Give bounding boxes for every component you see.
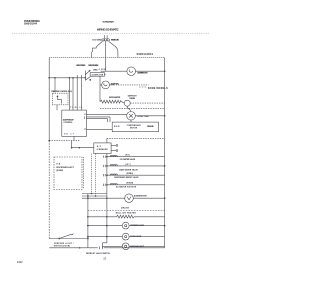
svg-text:115V 60HZ: 115V 60HZ xyxy=(92,39,102,41)
svg-text:DAMPER MOTOR: DAMPER MOTOR xyxy=(137,72,148,75)
svg-text:ICEMAKER: ICEMAKER xyxy=(97,148,109,151)
svg-text:COMPRESSOR: COMPRESSOR xyxy=(127,125,142,127)
svg-text:COND. FAN: COND. FAN xyxy=(137,115,149,118)
svg-text:FREEZER LIGHT /: FREEZER LIGHT / xyxy=(54,243,74,245)
svg-text:L1: L1 xyxy=(84,114,86,116)
svg-text:DEFROST LIGHT SWITCH: DEFROST LIGHT SWITCH xyxy=(86,253,111,255)
svg-text:(WT): (WT) xyxy=(125,164,131,166)
svg-text:THERM: THERM xyxy=(129,98,135,100)
svg-text:4 MIN: 4 MIN xyxy=(99,68,107,71)
svg-text:ADAPTIVE DEF: ADAPTIVE DEF xyxy=(63,119,75,122)
svg-text:T1 DF L1: T1 DF L1 xyxy=(70,107,82,109)
svg-text:(WT): (WT) xyxy=(125,154,130,156)
svg-text:EVAP FAN: EVAP FAN xyxy=(111,82,120,85)
svg-text:DE CT: DE CT xyxy=(64,133,74,135)
svg-text:GLRS267ZAW1: GLRS267ZAW1 xyxy=(102,20,114,23)
svg-text:MAIN WATER VALVE: MAIN WATER VALVE xyxy=(119,168,138,171)
svg-text:CT: CT xyxy=(84,129,86,131)
svg-text:WIRING SCHEMATIC: WIRING SCHEMATIC xyxy=(97,27,119,31)
svg-text:SOME MODELS: SOME MODELS xyxy=(148,88,168,90)
svg-text:4 DEFR HTR: 4 DEFR HTR xyxy=(92,74,104,77)
svg-text:(WT/GN): (WT/GN) xyxy=(127,183,134,185)
svg-text:DEFROST HEATER: DEFROST HEATER xyxy=(88,64,99,67)
svg-text:5995421644: 5995421644 xyxy=(24,23,38,26)
svg-text:MOTOR: MOTOR xyxy=(130,128,138,130)
svg-text:D: D xyxy=(84,118,85,120)
svg-text:(OR) 21W: (OR) 21W xyxy=(121,207,129,209)
svg-text:FREEZER LIGHT: FREEZER LIGHT xyxy=(130,225,145,227)
svg-text:ACTUATOR ICE DOOR: ACTUATOR ICE DOOR xyxy=(116,186,137,189)
svg-text:DEFR HEATER: DEFR HEATER xyxy=(109,96,121,99)
svg-text:MULLION HEATER: MULLION HEATER xyxy=(116,211,137,214)
svg-text:DEFROST TIMER: DEFROST TIMER xyxy=(76,65,86,67)
svg-text:C: C xyxy=(84,117,85,119)
svg-text:DISPENSER WATER VALVE: DISPENSER WATER VALVE xyxy=(114,176,139,179)
svg-text:ICE WATER VALVE: ICE WATER VALVE xyxy=(120,158,136,161)
svg-text:S94D4A3001: S94D4A3001 xyxy=(137,53,154,56)
svg-text:OVERLOAD: OVERLOAD xyxy=(147,125,155,128)
svg-text:2302: 2302 xyxy=(17,260,23,264)
svg-text:FREEZER CONTROL (N.C.): FREEZER CONTROL (N.C.) xyxy=(51,91,72,93)
svg-text:MDR: MDR xyxy=(114,126,120,128)
svg-text:SERVICE CORD: SERVICE CORD xyxy=(111,40,120,42)
svg-text:(SOME): (SOME) xyxy=(56,170,63,172)
svg-text:DISPENSER ASS'Y: DISPENSER ASS'Y xyxy=(56,166,75,169)
svg-text:(ORG): (ORG) xyxy=(93,69,97,71)
svg-text:AUGER MOTOR: AUGER MOTOR xyxy=(134,194,147,197)
svg-text:SWITCH (DOOR): SWITCH (DOOR) xyxy=(54,246,70,248)
svg-text:FOOD LIGHT: FOOD LIGHT xyxy=(130,236,142,238)
svg-text:CONTROL: CONTROL xyxy=(64,122,74,124)
svg-text:MODULE LIGHT: MODULE LIGHT xyxy=(130,246,144,248)
svg-text:(WT/BU): (WT/BU) xyxy=(127,173,134,175)
svg-text:A/C: A/C xyxy=(97,145,102,148)
